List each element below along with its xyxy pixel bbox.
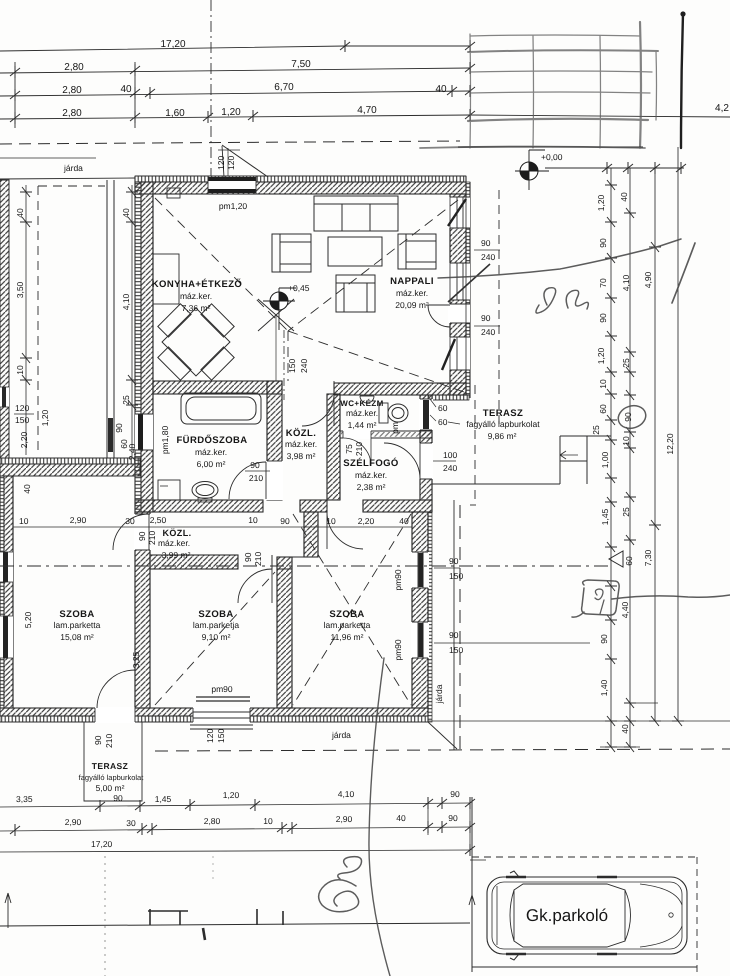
svg-text:lam.parketja: lam.parketja bbox=[193, 620, 240, 630]
svg-text:240: 240 bbox=[481, 252, 495, 262]
fs scribble bbox=[536, 288, 556, 313]
wc door bbox=[343, 430, 371, 439]
svg-text:6,70: 6,70 bbox=[274, 82, 294, 93]
dim line 2,80 40 6,70 40 bbox=[0, 91, 470, 96]
svg-text:máz.ker.: máz.ker. bbox=[180, 291, 212, 301]
dim line 17,20 bbox=[0, 46, 470, 51]
svg-text:járda: járda bbox=[434, 684, 444, 704]
site centre line (dash-dot vertical) bbox=[210, 0, 212, 176]
svg-text:TERASZ: TERASZ bbox=[92, 761, 128, 771]
svg-text:1,00: 1,00 bbox=[600, 451, 610, 468]
svg-text:1,20: 1,20 bbox=[223, 790, 240, 800]
svg-text:25: 25 bbox=[591, 425, 601, 435]
svg-text:2,80: 2,80 bbox=[204, 816, 221, 826]
svg-text:1,20: 1,20 bbox=[40, 409, 50, 426]
svg-text:1,20: 1,20 bbox=[596, 194, 606, 211]
svg-text:210: 210 bbox=[147, 531, 157, 545]
svg-text:NAPPALI: NAPPALI bbox=[390, 276, 434, 287]
svg-text:pm90: pm90 bbox=[393, 569, 403, 591]
svg-text:30: 30 bbox=[126, 818, 136, 828]
labels line A bbox=[591, 192, 675, 734]
svg-text:240: 240 bbox=[481, 327, 495, 337]
chair bottom bbox=[336, 275, 375, 312]
door szelfogo -> hall2 bbox=[327, 512, 363, 549]
svg-text:4,40: 4,40 bbox=[620, 601, 630, 618]
window2 in right wall bbox=[411, 622, 429, 658]
svg-text:10: 10 bbox=[326, 516, 336, 526]
svg-text:7,50: 7,50 bbox=[291, 59, 311, 70]
terrace outline bbox=[84, 722, 142, 801]
svg-text:210: 210 bbox=[104, 734, 114, 748]
svg-text:150: 150 bbox=[449, 645, 463, 655]
top exterior wall bbox=[135, 176, 466, 182]
dim row 2 bbox=[0, 827, 470, 831]
svg-text:lam.parketta: lam.parketta bbox=[54, 620, 101, 630]
szoba2/szoba3 wall bbox=[277, 557, 292, 708]
svg-text:40: 40 bbox=[435, 84, 447, 95]
svg-text:120: 120 bbox=[205, 729, 215, 743]
svg-text:240: 240 bbox=[299, 359, 309, 373]
dark pen vertical line top right bbox=[680, 11, 685, 148]
svg-text:7,36 m²: 7,36 m² bbox=[182, 303, 211, 313]
section marker B triangle bbox=[609, 551, 623, 567]
long wavy line across middle right bbox=[438, 239, 681, 278]
svg-text:90: 90 bbox=[114, 423, 124, 433]
svg-text:90: 90 bbox=[598, 238, 608, 248]
mid wall kitchen/bath row bbox=[153, 381, 282, 394]
svg-text:6,00 m²: 6,00 m² bbox=[197, 459, 226, 469]
svg-text:7,30: 7,30 bbox=[643, 549, 653, 566]
svg-text:40: 40 bbox=[15, 208, 25, 218]
bottom connector bbox=[428, 720, 730, 722]
svg-text:2,20: 2,20 bbox=[19, 431, 29, 448]
ticks bbox=[340, 40, 350, 52]
window szoba2 bottom pm120 bbox=[193, 707, 250, 723]
bathroom door in that wall: opening bottom bbox=[266, 461, 283, 500]
svg-text:12,20: 12,20 bbox=[665, 433, 675, 455]
svg-text:210: 210 bbox=[253, 552, 263, 566]
svg-text:2,80: 2,80 bbox=[62, 108, 82, 119]
rear lines bbox=[496, 886, 498, 945]
svg-text:210: 210 bbox=[249, 473, 263, 483]
svg-text:10: 10 bbox=[19, 516, 29, 526]
svg-text:100: 100 bbox=[443, 450, 457, 460]
svg-text:120: 120 bbox=[15, 403, 29, 413]
svg-text:fagyálló lapburkolat: fagyálló lapburkolat bbox=[79, 773, 145, 782]
svg-text:4,10: 4,10 bbox=[121, 293, 131, 310]
svg-text:2,90: 2,90 bbox=[336, 814, 353, 824]
svg-text:90: 90 bbox=[599, 634, 609, 644]
svg-text:máz.ker.: máz.ker. bbox=[158, 538, 190, 548]
svg-text:60: 60 bbox=[438, 403, 448, 413]
svg-text:90: 90 bbox=[448, 813, 458, 823]
door kitchen->hall bbox=[282, 381, 334, 394]
svg-text:pm90: pm90 bbox=[393, 639, 403, 661]
car bbox=[487, 871, 687, 960]
svg-text:4,2: 4,2 bbox=[715, 103, 729, 114]
svg-text:3,99 m²: 3,99 m² bbox=[162, 550, 191, 560]
svg-text:1,20: 1,20 bbox=[596, 347, 606, 364]
line D bbox=[677, 147, 679, 721]
svg-text:15,08 m²: 15,08 m² bbox=[60, 632, 94, 642]
inner dashed outline bbox=[37, 186, 39, 455]
svg-text:120: 120 bbox=[226, 156, 236, 170]
line A bbox=[610, 168, 612, 721]
svg-text:2,38 m²: 2,38 m² bbox=[357, 482, 386, 492]
svg-text:TERASZ: TERASZ bbox=[483, 408, 523, 419]
left boundary wall hatched bbox=[0, 180, 9, 458]
svg-text:3,98 m²: 3,98 m² bbox=[287, 451, 316, 461]
dim row 3 : 17,20 bbox=[0, 850, 470, 852]
epsilon scribble bottom bbox=[338, 857, 362, 879]
svg-text:17,20: 17,20 bbox=[91, 839, 113, 849]
svg-text:40: 40 bbox=[22, 484, 32, 494]
svg-text:40: 40 bbox=[396, 813, 406, 823]
svg-text:150: 150 bbox=[15, 415, 29, 425]
svg-text:60: 60 bbox=[438, 417, 448, 427]
left exterior wall bbox=[135, 182, 141, 512]
svg-text:SZOBA: SZOBA bbox=[59, 609, 94, 620]
faint dotted vertical bbox=[104, 856, 106, 976]
svg-text:40: 40 bbox=[619, 192, 629, 202]
svg-text:90: 90 bbox=[250, 460, 260, 470]
eaves dashed bbox=[498, 190, 500, 430]
sidewalk dashed line bbox=[0, 141, 460, 144]
svg-text:120: 120 bbox=[216, 156, 226, 170]
svg-text:máz.ker.: máz.ker. bbox=[195, 447, 227, 457]
svg-text:járda: járda bbox=[63, 163, 83, 173]
coffee table bbox=[328, 237, 382, 266]
wc sink half round on top wall bbox=[360, 396, 374, 403]
wheels ticks bbox=[506, 877, 617, 954]
left exterior wall lower bbox=[0, 476, 4, 708]
window pm1,20 in top wall bbox=[208, 177, 256, 193]
svg-text:25: 25 bbox=[621, 358, 631, 368]
svg-text:240: 240 bbox=[443, 463, 457, 473]
svg-text:60: 60 bbox=[624, 556, 634, 566]
svg-text:fagyálló lapburkolat: fagyálló lapburkolat bbox=[466, 419, 540, 429]
washbasin bbox=[192, 482, 218, 499]
sidewalk dashed line bottom bbox=[155, 749, 730, 751]
oval around 90 on line B bbox=[615, 402, 648, 432]
svg-text:1,44 m²: 1,44 m² bbox=[348, 420, 377, 430]
line B bbox=[629, 168, 631, 721]
bottom wall of yard (hatched band) bbox=[0, 458, 140, 464]
svg-text:90: 90 bbox=[481, 313, 491, 323]
szelfogo east wall bbox=[420, 395, 432, 500]
wc/szelfogo wall bbox=[340, 431, 432, 438]
svg-text:máz.ker.: máz.ker. bbox=[346, 408, 378, 418]
svg-text:KÖZL.: KÖZL. bbox=[286, 427, 317, 439]
window1 in right wall bbox=[411, 552, 429, 588]
svg-text:150: 150 bbox=[449, 571, 463, 581]
svg-text:KÖZL.: KÖZL. bbox=[163, 528, 192, 538]
svg-text:2,80: 2,80 bbox=[64, 62, 84, 73]
svg-text:90: 90 bbox=[450, 789, 460, 799]
long pencil curve through road bbox=[369, 658, 390, 976]
svg-text:40: 40 bbox=[120, 84, 132, 95]
arrow up left bbox=[5, 893, 11, 928]
svg-text:FÜRDŐSZOBA: FÜRDŐSZOBA bbox=[176, 434, 247, 446]
svg-text:pm: pm bbox=[390, 422, 400, 434]
svg-text:4,90: 4,90 bbox=[643, 271, 653, 288]
hall2 bottom wall bbox=[150, 555, 238, 569]
svg-text:10: 10 bbox=[598, 379, 608, 389]
svg-text:5,00 m²: 5,00 m² bbox=[96, 783, 125, 793]
svg-text:+0,00: +0,00 bbox=[541, 152, 563, 162]
svg-text:10: 10 bbox=[621, 436, 631, 446]
svg-text:1,60: 1,60 bbox=[165, 108, 185, 119]
svg-text:10: 10 bbox=[263, 816, 273, 826]
+0,45 valley cross bbox=[258, 299, 294, 381]
svg-text:3,25: 3,25 bbox=[131, 651, 141, 668]
svg-text:3,35: 3,35 bbox=[16, 794, 33, 804]
svg-text:40: 40 bbox=[399, 516, 409, 526]
svg-text:9,86 m²: 9,86 m² bbox=[488, 431, 517, 441]
svg-text:90: 90 bbox=[137, 531, 147, 541]
svg-text:WC+KÉZM: WC+KÉZM bbox=[340, 398, 383, 408]
svg-text:5,20: 5,20 bbox=[23, 611, 33, 628]
small cabinet left bbox=[158, 480, 180, 500]
svg-text:KONYHA+ÉTKEZŐ: KONYHA+ÉTKEZŐ bbox=[152, 278, 242, 290]
svg-text:máz.ker.: máz.ker. bbox=[355, 470, 387, 480]
svg-text:1,40: 1,40 bbox=[599, 679, 609, 696]
dim line 2,80 1,60 1,20 4,70 bbox=[0, 115, 470, 119]
right exterior wall lower bbox=[412, 512, 428, 708]
dim line 2,80 7,50 bbox=[0, 68, 470, 73]
svg-text:1,45: 1,45 bbox=[600, 508, 610, 525]
dim line 4,20 top right bbox=[470, 115, 730, 117]
svg-text:2,20: 2,20 bbox=[358, 516, 375, 526]
right wall of yard structure bbox=[107, 180, 114, 458]
terrace door opening right wall bbox=[448, 304, 470, 323]
marks on road bbox=[150, 909, 283, 925]
svg-text:90: 90 bbox=[113, 793, 123, 803]
svg-text:4,70: 4,70 bbox=[357, 105, 377, 116]
left extension verticals bbox=[14, 62, 16, 128]
dining table rotated bbox=[142, 288, 249, 395]
dim row 1 bbox=[0, 803, 470, 807]
svg-text:máz.ker.: máz.ker. bbox=[285, 439, 317, 449]
svg-text:+0,45: +0,45 bbox=[288, 283, 310, 293]
svg-text:25: 25 bbox=[121, 395, 131, 405]
level marker +0,45 bbox=[263, 283, 310, 330]
window labels top bbox=[216, 148, 500, 400]
svg-text:90: 90 bbox=[623, 412, 633, 422]
window in left wall bbox=[0, 387, 9, 407]
svg-text:2,50: 2,50 bbox=[150, 515, 167, 525]
front door opening bbox=[419, 443, 433, 479]
svg-text:210: 210 bbox=[354, 442, 364, 456]
svg-text:40: 40 bbox=[620, 724, 630, 734]
thin sidewalk line left bbox=[0, 157, 96, 159]
wc window in east wall bbox=[419, 399, 433, 430]
svg-text:150: 150 bbox=[216, 729, 226, 743]
top edge of yard bbox=[0, 178, 135, 179]
svg-text:70: 70 bbox=[598, 278, 608, 288]
left vertical dim line bbox=[20, 185, 138, 458]
hood lines bbox=[640, 884, 682, 947]
svg-text:máz.ker.: máz.ker. bbox=[396, 288, 428, 298]
svg-text:90: 90 bbox=[280, 516, 290, 526]
line C bbox=[654, 168, 656, 721]
svg-text:1,20: 1,20 bbox=[221, 107, 241, 118]
armchair left bbox=[272, 234, 311, 272]
svg-text:11,96 m²: 11,96 m² bbox=[331, 632, 364, 642]
svg-text:SZOBA: SZOBA bbox=[198, 609, 233, 620]
svg-text:1,45: 1,45 bbox=[155, 794, 172, 804]
right dim header line bbox=[545, 167, 684, 169]
svg-text:pm90: pm90 bbox=[211, 684, 233, 694]
svg-text:pm1,20: pm1,20 bbox=[219, 201, 248, 211]
svg-text:40: 40 bbox=[121, 208, 131, 218]
toilet bbox=[379, 403, 388, 423]
mirrors bbox=[510, 871, 519, 960]
property lines right of house bbox=[453, 500, 455, 750]
level marker +0,00 bbox=[515, 150, 563, 190]
bottom exterior wall bbox=[0, 708, 428, 716]
svg-text:SZÉLFOGÓ: SZÉLFOGÓ bbox=[343, 457, 398, 469]
svg-text:10: 10 bbox=[15, 365, 25, 375]
windshield bbox=[625, 890, 631, 941]
svg-text:lam.parketta: lam.parketta bbox=[324, 620, 371, 630]
svg-text:9,10 m²: 9,10 m² bbox=[202, 632, 231, 642]
svg-text:2,90: 2,90 bbox=[70, 515, 87, 525]
armchair right bbox=[398, 234, 436, 269]
svg-text:2,80: 2,80 bbox=[62, 85, 82, 96]
level base line to +0,00 bbox=[458, 146, 643, 148]
svg-text:17,20: 17,20 bbox=[160, 39, 185, 50]
bottom wall of bathroom row bbox=[135, 500, 263, 512]
svg-text:2,90: 2,90 bbox=[65, 817, 82, 827]
svg-text:90: 90 bbox=[243, 552, 253, 562]
svg-text:pm1,80: pm1,80 bbox=[160, 426, 170, 455]
rounded-rect scribble bbox=[582, 580, 620, 615]
svg-text:75: 75 bbox=[344, 444, 354, 454]
svg-text:25: 25 bbox=[621, 507, 631, 517]
svg-text:90: 90 bbox=[93, 735, 103, 745]
hall/wc wall bbox=[327, 394, 340, 500]
cabin bbox=[514, 884, 625, 947]
svg-text:3,50: 3,50 bbox=[15, 281, 25, 298]
szoba1 / hall2 wall bbox=[135, 512, 150, 708]
bathroom window in left wall bbox=[135, 414, 153, 450]
door szoba1 -> terasz bbox=[95, 707, 135, 723]
long centre dash-dot line through lower block bbox=[0, 565, 611, 567]
window openings right wall bbox=[448, 197, 470, 228]
svg-text:150: 150 bbox=[287, 359, 297, 373]
svg-text:90: 90 bbox=[481, 238, 491, 248]
door szoba1->terasz labels bbox=[93, 729, 351, 748]
vertical stubs near parking dims bbox=[428, 797, 470, 852]
corner diagonal to house bbox=[222, 145, 268, 177]
svg-text:Gk.parkoló: Gk.parkoló bbox=[526, 906, 608, 925]
svg-text:60: 60 bbox=[598, 404, 608, 414]
bathtub bbox=[181, 393, 261, 424]
bathroom/hall wall bbox=[267, 381, 282, 500]
svg-text:20,09 m²: 20,09 m² bbox=[395, 300, 429, 310]
hall2 right wall bbox=[304, 512, 318, 557]
svg-text:10: 10 bbox=[248, 515, 258, 525]
right exterior wall bbox=[450, 194, 466, 395]
lower window right wall with sash bbox=[448, 337, 470, 370]
wavy line lower right bbox=[612, 595, 730, 599]
svg-text:4,10: 4,10 bbox=[338, 789, 355, 799]
svg-text:SZOBA: SZOBA bbox=[329, 609, 364, 620]
kitchen counter bbox=[153, 254, 179, 304]
svg-text:4,10: 4,10 bbox=[621, 274, 631, 291]
dimension texts top bbox=[62, 39, 729, 119]
svg-text:30: 30 bbox=[125, 516, 135, 526]
door hall2 -> szoba1 bbox=[134, 514, 151, 550]
svg-text:90: 90 bbox=[598, 313, 608, 323]
sofa bbox=[314, 196, 398, 231]
svg-text:járda: járda bbox=[331, 730, 351, 740]
